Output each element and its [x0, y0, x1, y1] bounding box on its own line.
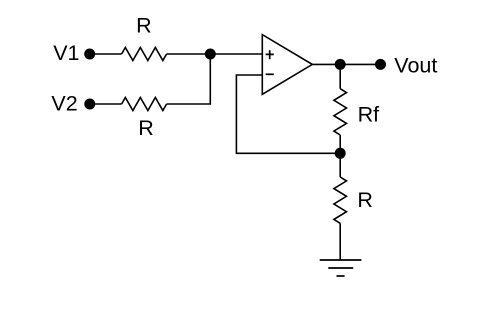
terminal dot V1: [84, 49, 95, 60]
node output junction dot: [335, 59, 346, 70]
resistor R1: [122, 48, 167, 61]
wire node B to R3: [339, 153, 341, 177]
value label R (R2): [138, 116, 154, 140]
svg-text:Rf: Rf: [358, 103, 380, 127]
terminal dot Vout: [375, 59, 386, 70]
ground: [320, 260, 362, 276]
wire V1 to R1: [90, 53, 122, 55]
wire node A to op-amp noninverting input: [210, 53, 262, 55]
label V1: [53, 41, 79, 65]
op-amp U1: [262, 35, 312, 95]
terminal dot V2: [84, 99, 95, 110]
wire R3 to ground: [339, 223, 341, 260]
wire R2 up to node A: [167, 54, 211, 104]
resistor Rf: [334, 89, 347, 135]
wire R1 to node A: [167, 53, 211, 55]
svg-text:Vout: Vout: [394, 53, 437, 77]
label Vout: [394, 53, 437, 77]
resistor R3: [334, 177, 347, 223]
svg-text:R: R: [138, 116, 154, 140]
node B feedback junction dot: [335, 148, 346, 159]
label V2: [51, 91, 77, 115]
wire output node to Rf: [339, 64, 341, 88]
value label R (R3): [357, 188, 373, 212]
node A summing junction dot: [205, 49, 216, 60]
value label Rf: [358, 103, 380, 127]
value label R (R1): [136, 14, 152, 38]
wire V2 to R2: [90, 103, 122, 105]
wire feedback: inverting input left and down to node B: [236, 75, 340, 153]
resistor R2: [122, 98, 167, 111]
wire op-amp output to Vout: [312, 63, 380, 65]
svg-text:R: R: [357, 188, 373, 212]
svg-text:V1: V1: [53, 41, 79, 65]
svg-text:V2: V2: [51, 91, 77, 115]
wire Rf to node B: [339, 135, 341, 153]
svg-text:R: R: [136, 14, 152, 38]
